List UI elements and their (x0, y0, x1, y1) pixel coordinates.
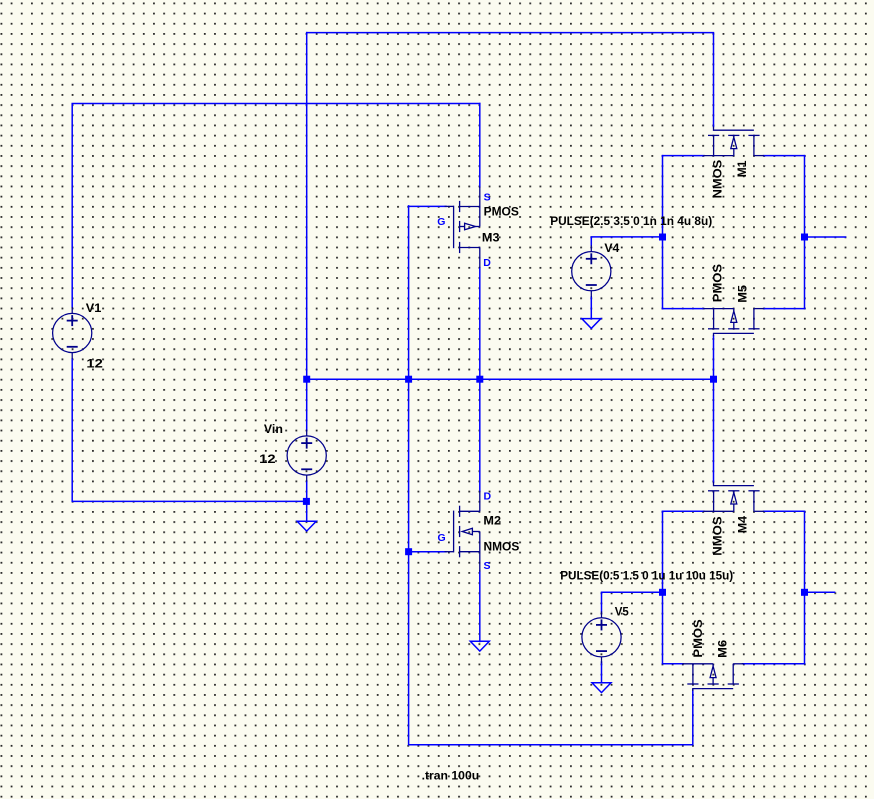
ground below Vin (297, 521, 316, 531)
wire V1 plus to M3 source (72, 104, 480, 308)
wire bottom loop output stub (805, 591, 835, 593)
wire vertical into Vin top (306, 33, 308, 430)
wire Vin minus to ground (306, 481, 308, 521)
svg-text:PULSE(2.5 3.5 0 1n 1n 4u 8u): PULSE(2.5 3.5 0 1n 1n 4u 8u) (550, 214, 712, 228)
svg-text:M3: M3 (482, 231, 500, 245)
node junction middle bus at M5 gate wire (710, 376, 717, 383)
wire top loop right vertical (804, 156, 806, 309)
node junction middle bus at M3 drain (476, 376, 483, 383)
node junction bottom loop right (801, 589, 808, 596)
wire middle output bus (307, 378, 714, 380)
svg-text:D: D (484, 491, 492, 503)
svg-text:Vin: Vin (264, 422, 283, 436)
wire V4 minus to ground (590, 297, 592, 319)
wire M4 source rail (663, 510, 705, 512)
svg-text:NMOS: NMOS (710, 516, 724, 555)
wire M6 source rail (663, 663, 684, 665)
svg-text:G: G (437, 216, 445, 228)
svg-text:PULSE(0.5 1.5 0 1u 1u 10u 15u): PULSE(0.5 1.5 0 1u 1u 10u 15u) (560, 569, 733, 583)
ground below V5 (592, 683, 611, 693)
svg-text:S: S (484, 192, 491, 204)
wire M5 source rail (663, 308, 705, 310)
svg-text:NMOS: NMOS (710, 160, 724, 199)
wire M5 gate to M4 gate (713, 336, 715, 483)
wire M3 gate lead (409, 205, 446, 207)
svg-text:PMOS: PMOS (484, 204, 519, 218)
svg-text:PMOS: PMOS (710, 264, 724, 302)
wire M3 drain to bus (479, 268, 481, 380)
wire V5 minus to ground (601, 662, 603, 683)
wire M3 source lead (479, 104, 481, 188)
wire M2 gate lead (409, 551, 446, 553)
svg-text:12: 12 (259, 452, 276, 466)
svg-text:D: D (483, 257, 491, 269)
svg-text:M2: M2 (483, 513, 501, 527)
svg-text:V1: V1 (86, 301, 102, 315)
svg-text:M5: M5 (736, 285, 750, 303)
svg-text:.tran 100u: .tran 100u (422, 768, 480, 782)
wire M6 drain rail (743, 663, 805, 665)
transistor M1 (NMOS rotated) (703, 127, 764, 156)
wire M1 source rail (663, 155, 705, 157)
wire bus to M2 drain (479, 379, 481, 491)
wire bottom loop right vertical (804, 511, 806, 664)
svg-text:S: S (484, 560, 491, 572)
ground below M2 source (470, 641, 489, 651)
transistor M2 (NMOS) (445, 491, 480, 572)
wire top loop left vertical (662, 156, 664, 309)
wire M5 drain rail (764, 308, 805, 310)
wire V1 minus to bottom node (72, 359, 306, 501)
wire top loop output stub (805, 236, 846, 238)
node junction bottom loop left (659, 589, 666, 596)
transistor M4 (NMOS rotated) (703, 482, 764, 511)
svg-text:M4: M4 (735, 516, 749, 534)
svg-text:V4: V4 (604, 241, 619, 255)
wire V4 plus to top loop (591, 237, 662, 245)
svg-text:12: 12 (86, 357, 103, 371)
wire gate bus vertical (409, 206, 693, 745)
wire M4 drain rail (764, 510, 805, 512)
ground below V4 (582, 319, 601, 329)
node junction V1 minus Vin minus (303, 498, 310, 505)
node junction middle bus at gate bus (405, 376, 412, 383)
svg-text:M6: M6 (716, 640, 730, 658)
node junction M2 gate (405, 548, 412, 555)
wire V5 plus to bottom loop (602, 592, 663, 612)
voltage source V1 (53, 307, 92, 359)
svg-text:PMOS: PMOS (691, 619, 705, 657)
svg-text:M1: M1 (735, 160, 749, 177)
wire M2 source to ground (479, 571, 481, 642)
voltage source V4 (572, 245, 611, 297)
voltage source V5 (582, 611, 621, 663)
svg-text:V5: V5 (615, 605, 629, 619)
node junction middle bus at Vin (303, 376, 310, 383)
wire top rail from node above Vin to M1 gate (307, 33, 714, 127)
wire bottom loop left vertical (662, 511, 664, 664)
node junction top loop left (659, 234, 666, 241)
wire M1 drain rail (764, 155, 805, 157)
transistor M5 (PMOS rotated) (703, 309, 764, 337)
node junction top loop right (801, 234, 808, 241)
svg-text:G: G (438, 532, 446, 544)
svg-text:NMOS: NMOS (484, 540, 520, 554)
voltage source Vin (287, 430, 326, 482)
transistor M6 (PMOS rotated) (682, 664, 743, 691)
transistor M3 (PMOS) (445, 187, 480, 269)
